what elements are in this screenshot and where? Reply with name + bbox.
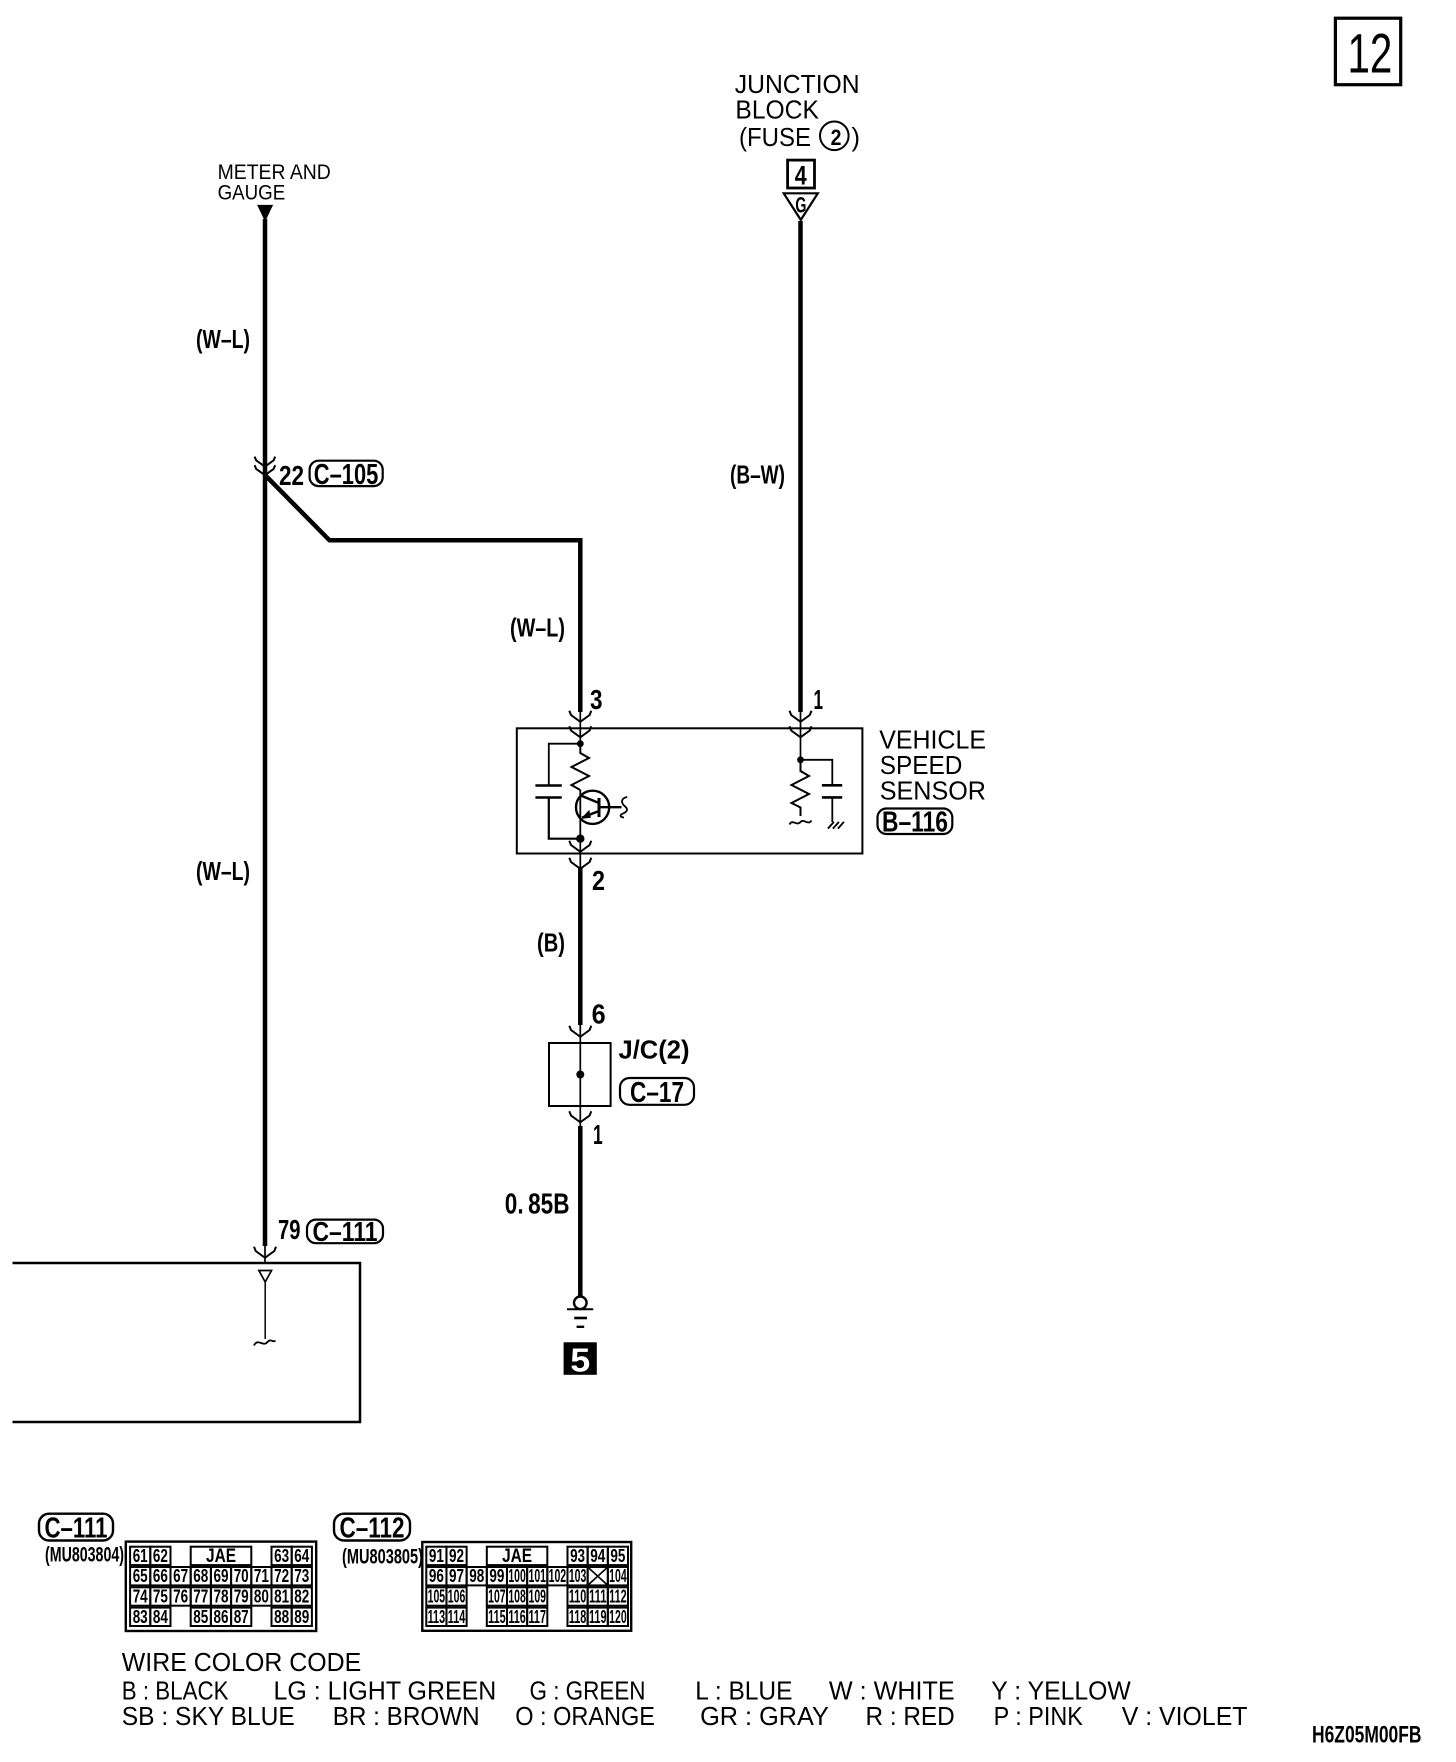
capacitor C1 [535,786,561,798]
svg-text:82: 82 [294,1587,309,1607]
wire B-W from junction block (vertical) [798,221,803,712]
page index box 12 [1335,18,1400,85]
svg-text:118: 118 [569,1607,587,1627]
svg-text:64: 64 [294,1546,309,1566]
internal continuation squiggle [254,1340,276,1345]
label METER AND GAUGE [218,160,331,205]
svg-text:100: 100 [508,1566,526,1586]
svg-text:65: 65 [133,1566,148,1586]
svg-text:V : VIOLET: V : VIOLET [1122,1701,1248,1731]
svg-text:4: 4 [795,161,807,191]
svg-text:80: 80 [254,1587,269,1607]
svg-text:71: 71 [254,1566,269,1586]
svg-text:2: 2 [592,865,605,896]
svg-text:C–105: C–105 [314,459,379,491]
svg-text:1: 1 [593,1119,603,1150]
svg-text:99: 99 [489,1566,504,1586]
internal wire [264,1282,266,1339]
pin 1 terminal chevron (J/C bottom) [569,1111,591,1122]
svg-text:(FUSE: (FUSE [739,124,811,152]
svg-text:C–17: C–17 [630,1077,684,1109]
svg-text:SENSOR: SENSOR [880,776,986,806]
svg-text:115: 115 [488,1607,506,1627]
chassis ground [828,822,844,829]
ground symbol [567,1309,593,1327]
svg-text:92: 92 [449,1546,464,1566]
svg-text:SB : SKY BLUE: SB : SKY BLUE [122,1701,295,1731]
pin 79 stub wire [264,1246,266,1263]
svg-text:76: 76 [173,1587,188,1607]
svg-text:G: G [795,193,806,218]
wire 0.85B to ground [578,1126,583,1296]
svg-text:102: 102 [549,1566,567,1586]
svg-text:JUNCTION: JUNCTION [735,71,860,99]
capacitor C1 lower wire [549,799,581,839]
svg-text:67: 67 [173,1566,188,1586]
svg-text:C–112: C–112 [340,1513,405,1545]
pin 79 terminal chevron [254,1247,276,1258]
svg-text:98: 98 [469,1566,484,1586]
pin 2 terminal chevrons [569,841,591,869]
svg-text:(MU803805): (MU803805) [342,1546,423,1569]
svg-text:106: 106 [448,1587,466,1607]
svg-text:GR : GRAY: GR : GRAY [700,1701,829,1731]
svg-text:104: 104 [609,1566,627,1586]
connector C-112 pin table [422,1542,631,1631]
svg-text:91: 91 [429,1546,444,1566]
circled 2 [820,122,849,151]
svg-text:6: 6 [592,999,606,1030]
connector C-105 tag [310,459,383,491]
wire B sensor to J/C (vertical) [578,868,583,1025]
connector C-111 pin table [126,1542,316,1631]
svg-text:79: 79 [234,1587,249,1607]
svg-text:108: 108 [508,1587,526,1607]
connector C-111 tag (diagram) [307,1216,383,1247]
svg-text:109: 109 [528,1587,546,1607]
capacitor C2 branch wire [801,760,833,784]
pin 6 terminal chevron [569,1026,591,1037]
svg-text:117: 117 [528,1607,546,1627]
resistor R1 [572,744,590,790]
svg-text:68: 68 [193,1566,208,1586]
junction branch chevrons at C-105 [255,457,276,476]
svg-text:95: 95 [610,1546,625,1566]
capacitor C2 [822,785,842,797]
pin 1 stub wire [800,712,802,760]
svg-text:C–111: C–111 [313,1216,378,1247]
node A (sensor pin3 internal) [577,740,584,747]
svg-text:61: 61 [133,1546,148,1566]
svg-text:89: 89 [294,1607,309,1627]
svg-text:0. 85B: 0. 85B [505,1189,570,1221]
capacitor C1 branch wires [549,744,581,785]
svg-text:(W–L): (W–L) [510,613,565,643]
svg-text:96: 96 [429,1566,444,1586]
svg-text:GAUGE: GAUGE [218,181,286,205]
node D (J/C internal) [576,1071,584,1079]
svg-text:81: 81 [274,1587,289,1607]
node C (sensor pin1 internal) [797,756,804,763]
transistor emitter arrow [581,810,591,819]
svg-text:105: 105 [428,1587,446,1607]
svg-text:87: 87 [234,1607,249,1627]
fuse tab 4 [788,160,815,190]
svg-text:94: 94 [590,1546,605,1566]
connector C-17 tag [620,1077,694,1109]
svg-text:BR : BROWN: BR : BROWN [333,1701,480,1731]
junction connector J/C(2) box [549,1043,611,1106]
svg-text:12: 12 [1348,22,1393,85]
svg-text:103: 103 [569,1566,587,1586]
svg-text:79: 79 [278,1214,301,1245]
svg-text:110: 110 [569,1587,587,1607]
svg-text:70: 70 [234,1566,249,1586]
svg-text:112: 112 [609,1587,627,1607]
wire W-L from meter and gauge (vertical) [263,219,268,1246]
svg-text:72: 72 [274,1566,289,1586]
svg-text:(B–W): (B–W) [730,460,785,490]
transistor base lead [599,806,622,808]
connector C-111 tag (table) [39,1513,113,1545]
svg-text:1: 1 [814,684,824,715]
svg-text:J/C(2): J/C(2) [619,1035,690,1065]
svg-text:3: 3 [590,684,603,715]
svg-text:JAE: JAE [502,1546,532,1567]
svg-text:(MU803804): (MU803804) [45,1544,124,1567]
ground terminal circle [574,1297,587,1310]
ground designation triangle G [784,193,818,220]
capacitor C2 lower wire [831,798,833,822]
svg-text:C–111: C–111 [45,1513,108,1545]
svg-text:(W–L): (W–L) [196,324,250,354]
svg-text:86: 86 [214,1607,229,1627]
svg-text:69: 69 [214,1566,229,1586]
svg-text:P : PINK: P : PINK [994,1701,1084,1731]
svg-text:75: 75 [153,1587,168,1607]
internal connector triangle [259,1271,272,1283]
svg-text:74: 74 [133,1587,148,1607]
svg-text:): ) [852,124,861,152]
svg-text:22: 22 [279,460,304,491]
vehicle speed sensor box B-116 [517,728,863,853]
label JUNCTION BLOCK (FUSE 2) [735,71,860,152]
svg-text:113: 113 [428,1607,446,1627]
svg-text:85: 85 [193,1607,208,1627]
pin 3 stub wire [579,712,581,744]
svg-text:(B): (B) [537,928,565,958]
ground point 5 marker [564,1342,597,1379]
svg-text:BLOCK: BLOCK [735,97,819,125]
svg-text:84: 84 [153,1607,168,1627]
svg-text:WIRE COLOR CODE: WIRE COLOR CODE [122,1647,361,1677]
svg-text:97: 97 [449,1566,464,1586]
connector C-112 tag (table) [334,1513,410,1545]
pin 2 stub wire [579,839,581,868]
pin 1 terminal chevrons [790,711,812,738]
svg-text:88: 88 [274,1607,289,1627]
svg-text:H6Z05M00FB: H6Z05M00FB [1312,1722,1422,1749]
svg-text:101: 101 [528,1566,546,1586]
svg-text:83: 83 [133,1607,148,1627]
svg-text:107: 107 [488,1587,506,1607]
resistor R2 [792,760,810,816]
node B (sensor pin2 internal) [576,835,584,843]
svg-text:62: 62 [153,1546,168,1566]
svg-text:5: 5 [570,1342,590,1379]
destination component box (open left) [13,1263,361,1422]
svg-text:114: 114 [448,1607,466,1627]
svg-text:93: 93 [570,1546,585,1566]
svg-text:JAE: JAE [206,1546,236,1567]
resistor R2 continuation squiggle [790,821,812,825]
svg-text:R : RED: R : RED [866,1701,955,1731]
pin 3 terminal chevrons [569,711,591,738]
wire through transistor [579,790,581,839]
label VEHICLE SPEED SENSOR [879,724,986,805]
svg-text:B–116: B–116 [882,807,948,839]
base lead continuation squiggle [621,797,628,818]
svg-text:111: 111 [589,1587,607,1607]
wire branch diagonal and horizontal to sensor pin 3 [265,475,580,712]
svg-text:O : ORANGE: O : ORANGE [515,1701,655,1731]
svg-text:120: 120 [609,1607,627,1627]
svg-text:119: 119 [589,1607,607,1627]
svg-text:77: 77 [193,1587,208,1607]
svg-text:(W–L): (W–L) [196,856,250,886]
connector B-116 tag [878,807,953,839]
svg-text:63: 63 [274,1546,289,1566]
junction block J/C(2) wire through [579,1025,581,1126]
connector arrow (meter and gauge) [257,205,273,222]
svg-text:66: 66 [153,1566,168,1586]
svg-text:116: 116 [508,1607,526,1627]
svg-text:78: 78 [214,1587,229,1607]
svg-text:73: 73 [294,1566,309,1586]
wire color code legend [122,1647,1248,1731]
svg-text:2: 2 [831,125,842,150]
transistor Q1 [576,791,609,824]
